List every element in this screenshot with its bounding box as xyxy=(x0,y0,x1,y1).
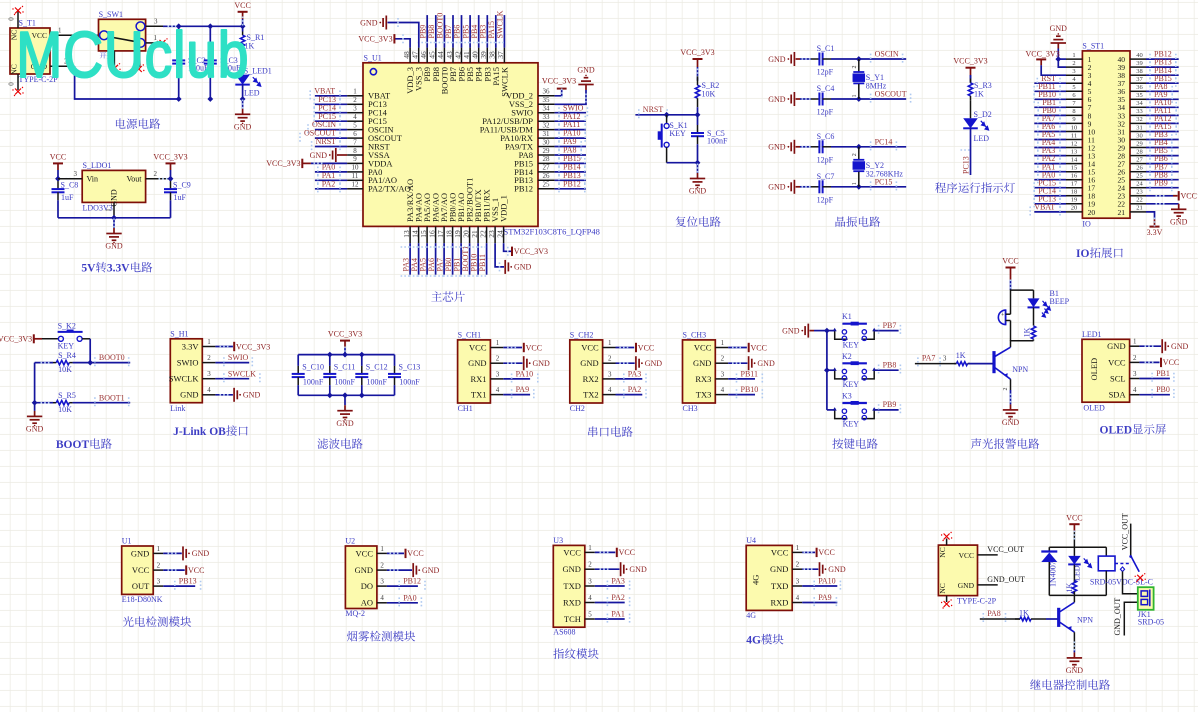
svg-text:12pF: 12pF xyxy=(817,108,834,117)
svg-text:OUT: OUT xyxy=(132,581,150,591)
ground GND at CH3 pin 2 xyxy=(728,362,747,364)
svg-text:4: 4 xyxy=(380,594,384,602)
title 4G模块 xyxy=(746,634,783,647)
ST1 right pin 31 xyxy=(1130,131,1146,133)
svg-text:KEY: KEY xyxy=(58,342,75,351)
svg-text:3: 3 xyxy=(74,170,78,178)
svg-text:KEY: KEY xyxy=(843,380,860,389)
svg-text:VCC: VCC xyxy=(771,547,789,557)
svg-text:S_C7: S_C7 xyxy=(817,172,835,181)
svg-text:2: 2 xyxy=(353,96,357,104)
svg-text:27: 27 xyxy=(543,164,551,172)
wire/net PC13 into U1 pin 2 xyxy=(315,103,347,105)
wire/net PA1 at ST1 pin 15 xyxy=(1034,171,1066,173)
svg-text:33: 33 xyxy=(1136,108,1143,115)
svg-text:BOOT1: BOOT1 xyxy=(99,393,125,402)
svg-text:S_ST1: S_ST1 xyxy=(1082,41,1104,50)
svg-text:VCC: VCC xyxy=(469,342,487,352)
wire/net PA3 at CH2 pin 3 xyxy=(616,378,643,380)
svg-text:10K: 10K xyxy=(58,365,72,374)
svg-text:MQ-2: MQ-2 xyxy=(345,609,365,618)
U1 bottom pin 21 (PB10/TX) xyxy=(477,226,479,243)
ST1 right pin 34 xyxy=(1130,106,1146,108)
svg-text:PA2: PA2 xyxy=(611,593,625,602)
ground GND at U1 pin 8 (VSSA) xyxy=(337,154,347,156)
svg-text:GND: GND xyxy=(336,419,354,428)
ground GND (power circuit) xyxy=(242,99,244,109)
svg-text:VCC_3V3: VCC_3V3 xyxy=(153,152,187,161)
svg-text:S_C9: S_C9 xyxy=(173,181,191,190)
wire/net PA7 at ST1 pin 9 xyxy=(1034,122,1066,124)
wire/net PA10 at CH1 pin 3 xyxy=(503,378,530,380)
svg-text:2: 2 xyxy=(157,562,161,570)
ground GND at LED1 pin 1 xyxy=(1139,345,1161,347)
power flag VCC at U3 pin 1 xyxy=(595,551,616,553)
key K2 xyxy=(827,369,835,371)
ST1 right pin 40 xyxy=(1130,58,1146,60)
title IO拓展口 xyxy=(1076,247,1123,260)
svg-text:VCC_3V3: VCC_3V3 xyxy=(542,77,576,86)
connector TYPE-C-2P (relay output) xyxy=(938,545,977,596)
wire button bus xyxy=(826,331,828,410)
ST1 right pin 35 xyxy=(1130,98,1146,100)
key K3 xyxy=(827,409,835,411)
wire/net OSCOUT into U1 pin 6 xyxy=(315,137,347,139)
capacitor S_C2 xyxy=(178,26,180,52)
wire/net SWIO at H1 pin 2 xyxy=(215,362,249,364)
wire/net PA12 at ST1 pin 32 xyxy=(1146,122,1179,124)
wire/net VBAT at ST1 pin 20 xyxy=(1034,211,1066,213)
wire/net PB15 at U1 right pin 28 xyxy=(555,162,586,164)
svg-text:34: 34 xyxy=(1136,100,1143,107)
ST1 right pin 26 xyxy=(1130,171,1146,173)
svg-text:4: 4 xyxy=(721,386,725,394)
svg-text:8: 8 xyxy=(1072,108,1075,115)
svg-text:CH1: CH1 xyxy=(458,404,473,413)
wire/net PC13 at ST1 pin 19 xyxy=(1034,203,1066,205)
svg-text:GND: GND xyxy=(533,359,551,368)
svg-text:21: 21 xyxy=(1136,205,1143,212)
svg-text:PB8: PB8 xyxy=(883,361,897,370)
U1 top pin 43 (PB7) xyxy=(452,48,454,63)
svg-text:GND: GND xyxy=(468,358,486,368)
svg-text:32.768KHz: 32.768KHz xyxy=(866,169,904,178)
svg-text:VCC_3V3: VCC_3V3 xyxy=(514,247,548,256)
LED alarm branch xyxy=(1033,290,1035,298)
svg-text:VCC_3V3: VCC_3V3 xyxy=(0,334,32,343)
U1 bottom pin 18 (PB0/AO) xyxy=(452,226,454,243)
ST1 left pin 5 xyxy=(1066,90,1082,92)
wire/net PA8 at U1 right pin 29 xyxy=(555,154,586,156)
power flag VCC at ST1 pin 23 xyxy=(1146,195,1173,197)
svg-text:VCC: VCC xyxy=(1181,192,1197,201)
svg-text:PB10: PB10 xyxy=(741,385,759,394)
wire/net PB6 at ST1 pin 27 xyxy=(1146,163,1179,165)
svg-text:2: 2 xyxy=(588,561,592,569)
ST1 left pin 20 xyxy=(1066,211,1082,213)
svg-text:19: 19 xyxy=(1071,197,1078,204)
module U4 (4G) body xyxy=(746,545,792,610)
svg-text:8MHz: 8MHz xyxy=(866,82,887,91)
svg-text:100nF: 100nF xyxy=(335,377,356,386)
svg-text:2: 2 xyxy=(852,153,858,156)
svg-text:VDD_1: VDD_1 xyxy=(499,195,509,222)
wire/net PA6 at ST1 pin 10 xyxy=(1034,131,1066,133)
svg-text:SWCLK: SWCLK xyxy=(169,374,200,384)
U1 bottom pin 23 (VSS_1) xyxy=(494,226,496,243)
svg-text:VCC: VCC xyxy=(526,343,542,352)
resistor 1K (relay base) xyxy=(1015,618,1020,620)
svg-text:SWCLK: SWCLK xyxy=(496,10,505,38)
svg-text:LED: LED xyxy=(974,134,990,143)
svg-text:1K: 1K xyxy=(1023,327,1032,337)
svg-text:2: 2 xyxy=(380,562,384,570)
svg-text:GND: GND xyxy=(828,565,846,574)
ST1 right pin 25 xyxy=(1130,179,1146,181)
wire/net PA9 at U4 pin 4 xyxy=(802,602,837,604)
wire/net PB11 at CH3 pin 3 xyxy=(728,378,755,380)
svg-text:3: 3 xyxy=(1072,68,1075,75)
svg-text:TX2: TX2 xyxy=(583,390,599,400)
svg-text:2: 2 xyxy=(207,354,211,362)
svg-text:2: 2 xyxy=(721,355,725,363)
svg-text:J-Link OB: J-Link OB xyxy=(173,426,226,438)
wire/net PB9 at ST1 pin 24 xyxy=(1146,187,1179,189)
wire/net PA2 at CH2 pin 4 xyxy=(616,394,643,396)
title 晶振电路 xyxy=(836,216,881,227)
svg-text:Vin: Vin xyxy=(87,174,99,183)
module U2 (MQ-2) body xyxy=(345,546,377,609)
svg-text:4G: 4G xyxy=(746,635,761,647)
svg-text:SRD-05: SRD-05 xyxy=(1138,618,1164,627)
svg-text:GND: GND xyxy=(770,564,788,574)
svg-text:21: 21 xyxy=(1118,208,1126,217)
ground GND at ST1 pin 22 xyxy=(1146,203,1179,205)
ST1 left pin 8 xyxy=(1066,114,1082,116)
svg-text:4: 4 xyxy=(1133,386,1137,394)
junction at C2 top xyxy=(176,23,182,29)
power flag VCC_3V3 (filter) xyxy=(340,340,350,342)
svg-text:CH3: CH3 xyxy=(683,404,698,413)
svg-text:2: 2 xyxy=(796,561,800,569)
title J-Link OB接口 xyxy=(173,425,248,438)
svg-text:VCC: VCC xyxy=(234,1,250,10)
svg-text:S_K2: S_K2 xyxy=(58,322,76,331)
power flag VCC at U2 pin 1 xyxy=(387,552,404,554)
svg-text:13: 13 xyxy=(1071,148,1078,155)
connector S_H1 (J-Link) xyxy=(170,339,202,403)
svg-text:PA10: PA10 xyxy=(818,577,836,586)
svg-text:VCC: VCC xyxy=(50,152,66,161)
svg-text:AO: AO xyxy=(361,598,373,608)
title 复位电路 xyxy=(676,216,721,227)
svg-text:4: 4 xyxy=(207,386,211,394)
ST1 right pin 39 xyxy=(1130,66,1146,68)
svg-text:GND: GND xyxy=(768,183,786,192)
svg-text:31: 31 xyxy=(1136,124,1143,131)
svg-text:3: 3 xyxy=(207,370,211,378)
svg-text:100nF: 100nF xyxy=(707,137,728,146)
buzzer B1 BEEP xyxy=(998,310,1005,325)
wire/net PA10 at U4 pin 3 xyxy=(802,585,837,587)
svg-text:GND: GND xyxy=(1170,217,1188,226)
svg-text:1: 1 xyxy=(588,544,592,552)
svg-text:VCC: VCC xyxy=(818,548,834,557)
svg-text:VCC_3V3: VCC_3V3 xyxy=(358,35,392,44)
svg-text:4: 4 xyxy=(353,113,357,121)
svg-text:VCC: VCC xyxy=(356,548,374,558)
wire/net PA7 at U1 bottom pin 17 xyxy=(443,243,445,275)
U1 bottom pin 22 (PB11/RX) xyxy=(486,226,488,243)
diode 1N4007 xyxy=(1048,547,1050,551)
svg-text:PB11: PB11 xyxy=(478,254,487,272)
svg-text:IO: IO xyxy=(1082,220,1091,229)
svg-text:VCC: VCC xyxy=(638,343,654,352)
wire/net PA3 at U1 bottom pin 13 xyxy=(409,243,411,275)
svg-text:IO: IO xyxy=(1076,248,1089,260)
svg-text:PB9: PB9 xyxy=(1154,178,1168,187)
svg-text:3.3V: 3.3V xyxy=(182,341,200,351)
svg-text:MCUclub: MCUclub xyxy=(16,18,249,91)
svg-text:28: 28 xyxy=(543,155,551,163)
svg-text:AS608: AS608 xyxy=(553,628,575,637)
svg-text:GND: GND xyxy=(645,359,663,368)
title 光电检测模块 xyxy=(123,616,191,627)
svg-text:S_U1: S_U1 xyxy=(364,53,382,62)
svg-text:27: 27 xyxy=(1136,156,1143,163)
svg-text:TCH: TCH xyxy=(564,614,581,624)
wire/net PA6 at U1 bottom pin 16 xyxy=(435,243,437,275)
svg-text:KEY: KEY xyxy=(843,340,860,349)
wire/net PB5 at U1 top pin 41 xyxy=(469,15,471,48)
MCU S_U1 body (STM32F103C8T6_LQFP48) xyxy=(363,63,538,227)
module U1 (E18-D80NK) body xyxy=(122,546,154,594)
wire alarm bottom node xyxy=(1011,341,1034,348)
title OLED显示屏 xyxy=(1100,424,1167,436)
ST1 right pin 30 xyxy=(1130,139,1146,141)
svg-text:PA0: PA0 xyxy=(403,593,417,602)
relay T-connector top stub (no connect) xyxy=(946,539,948,546)
svg-text:RX3: RX3 xyxy=(695,374,711,384)
wire/net PB7 at ST1 pin 26 xyxy=(1146,171,1179,173)
relay T-connector bottom stub (no connect) xyxy=(946,596,948,602)
wire/net PA12 at U1 right pin 33 xyxy=(555,120,586,122)
svg-text:TXD: TXD xyxy=(563,581,580,591)
power flag VCC_3V3 at H1 pin 1 xyxy=(215,346,233,348)
wire/net PB14 at ST1 pin 38 xyxy=(1146,74,1179,76)
svg-text:GND: GND xyxy=(355,565,373,575)
power flag VCC_3V3 (indicator) xyxy=(966,67,976,69)
svg-text:GND: GND xyxy=(131,548,149,558)
svg-text:5: 5 xyxy=(588,610,592,618)
wire/net PC14 into U1 pin 3 xyxy=(315,112,347,114)
svg-text:VCC: VCC xyxy=(959,551,974,560)
svg-text:PA1: PA1 xyxy=(611,610,625,619)
wire/net PB13 at U1 right pin 26 xyxy=(555,179,586,181)
wire/net PB12 at U1 right pin 25 xyxy=(555,188,586,190)
svg-text:15: 15 xyxy=(1071,165,1078,172)
svg-text:12pF: 12pF xyxy=(817,195,834,204)
svg-text:1: 1 xyxy=(1133,338,1137,346)
svg-text:35: 35 xyxy=(1136,92,1143,99)
capacitor S_C4 / net OSCOUT xyxy=(791,92,794,106)
wire/net PB12 at ST1 pin 40 xyxy=(1146,58,1179,60)
svg-text:S_CH2: S_CH2 xyxy=(570,330,594,339)
svg-text:GND: GND xyxy=(192,549,210,558)
resistor S_R5 10K xyxy=(35,402,53,404)
power flag VCC at U1 module pin 2 xyxy=(163,569,185,571)
U1 top pin 38 (PA15) xyxy=(495,48,497,63)
power flag VCC at CH3 pin 1 xyxy=(728,347,747,349)
svg-text:GND: GND xyxy=(234,122,252,131)
ST1 left pin 11 xyxy=(1066,139,1082,141)
svg-text:1: 1 xyxy=(721,339,725,347)
title 滤波电路 xyxy=(317,438,362,449)
svg-text:KEY: KEY xyxy=(843,420,860,429)
svg-text:NC: NC xyxy=(938,547,947,557)
U1 top pin 44 (BOOT0) xyxy=(443,48,445,63)
U1 bottom pin 19 (PB1/AO) xyxy=(460,226,462,243)
svg-text:OLED: OLED xyxy=(1089,358,1099,381)
svg-text:S_D2: S_D2 xyxy=(974,110,992,119)
relay coil SRD-05VDC-SL-C xyxy=(1105,547,1107,556)
svg-text:12: 12 xyxy=(1071,140,1078,147)
title 串口电路 xyxy=(588,426,632,437)
U1 top pin 39 (PB3) xyxy=(486,48,488,63)
svg-text:22: 22 xyxy=(1136,197,1143,204)
wire/net PB3 at ST1 pin 30 xyxy=(1146,139,1179,141)
ground GND at U4 pin 2 xyxy=(802,568,818,570)
wire/net PB7 at U1 top pin 43 xyxy=(452,15,454,48)
wire filter top rail xyxy=(298,354,394,356)
svg-text:10K: 10K xyxy=(58,405,72,414)
capacitor S_C13 100nF xyxy=(394,355,396,366)
wire filter bottom rail xyxy=(298,394,394,396)
svg-text:RXD: RXD xyxy=(563,597,581,607)
svg-text:BEEP: BEEP xyxy=(1050,297,1070,306)
power flag VCC_3V3 (reset) xyxy=(693,58,703,60)
svg-text:Vout: Vout xyxy=(127,174,143,183)
power flag VCC at CH1 pin 1 xyxy=(503,347,522,349)
svg-text:VCC_3V3: VCC_3V3 xyxy=(1025,49,1059,58)
wire/net PB13 at U1 module pin 3 xyxy=(163,585,195,587)
relay switch contact + arm xyxy=(1115,563,1131,565)
svg-text:NPN: NPN xyxy=(1012,365,1028,374)
power flag VCC at CH2 pin 1 xyxy=(616,347,635,349)
svg-text:RX2: RX2 xyxy=(583,374,599,384)
U1 top pin 40 (PB4) xyxy=(478,48,480,63)
svg-text:16: 16 xyxy=(1071,173,1078,180)
junction LED bottom rail xyxy=(240,96,246,102)
U1 bottom pin 16 (PA6/AO) xyxy=(435,226,437,243)
svg-text:4: 4 xyxy=(496,386,500,394)
wire/net PA15 at U1 top pin 38 xyxy=(495,15,497,48)
SW1 bottom stub A (no connect) xyxy=(113,51,115,67)
resistor 1K (relay LED) xyxy=(1073,565,1075,583)
svg-text:SWCLK: SWCLK xyxy=(228,369,256,378)
wire/net SWCLK at U1 top pin 37 xyxy=(503,15,505,48)
power flag VCC_3V3 (LDO output) xyxy=(166,162,176,164)
svg-text:37: 37 xyxy=(1136,76,1143,83)
wire/net PB5 at ST1 pin 28 xyxy=(1146,155,1179,157)
resistor S_R3 1K xyxy=(970,75,972,79)
svg-text:VCC_3V3: VCC_3V3 xyxy=(236,342,270,351)
svg-text:DO: DO xyxy=(361,581,373,591)
svg-text:PB1: PB1 xyxy=(1156,369,1170,378)
svg-text:3: 3 xyxy=(353,105,357,113)
svg-text:GND: GND xyxy=(689,187,707,196)
svg-text:CH2: CH2 xyxy=(570,404,585,413)
power flag VCC (LDO input) xyxy=(53,162,63,164)
connector S_CH3 body xyxy=(683,340,716,403)
svg-text:26: 26 xyxy=(543,172,551,180)
svg-text:VCC: VCC xyxy=(1163,358,1179,367)
svg-text:PB11: PB11 xyxy=(741,370,759,379)
svg-text:2: 2 xyxy=(496,355,500,363)
capacitor S_C7 / net PC15 xyxy=(791,180,794,194)
wire/net PB8 at ST1 pin 25 xyxy=(1146,179,1179,181)
ground GND (relay) xyxy=(1073,650,1075,652)
svg-text:5V: 5V xyxy=(81,263,96,275)
svg-text:38: 38 xyxy=(1136,68,1143,75)
key S_K2 (BOOT button) xyxy=(58,336,63,341)
svg-text:NPN: NPN xyxy=(1077,615,1093,624)
svg-text:GND_OUT: GND_OUT xyxy=(1113,598,1122,636)
power flag 3.3V at ST1 pin 21 xyxy=(1146,212,1155,219)
svg-text:S_CH1: S_CH1 xyxy=(458,330,482,339)
svg-text:12: 12 xyxy=(352,181,360,189)
U1 top pin 46 (PB9) xyxy=(426,48,428,63)
svg-text:34: 34 xyxy=(543,105,551,113)
wire/net BOOT0 at U1 top pin 44 xyxy=(443,15,445,48)
svg-text:32: 32 xyxy=(1136,116,1143,123)
svg-text:2: 2 xyxy=(608,355,612,363)
svg-text:GND: GND xyxy=(1050,24,1068,33)
svg-text:36: 36 xyxy=(543,88,551,96)
svg-text:U3: U3 xyxy=(553,536,563,545)
svg-text:100nF: 100nF xyxy=(303,377,324,386)
wire/net PB4 at U1 top pin 40 xyxy=(478,15,480,48)
svg-text:PB12: PB12 xyxy=(514,184,533,194)
wire/net NRST (reset node) xyxy=(635,114,697,116)
title 程序运行指示灯 xyxy=(935,182,1015,193)
svg-text:VCC: VCC xyxy=(751,343,767,352)
svg-text:1: 1 xyxy=(608,339,612,347)
svg-text:TX1: TX1 xyxy=(471,390,487,400)
wire/net PA2 into U1 pin 12 xyxy=(315,188,347,190)
svg-text:PC13: PC13 xyxy=(962,156,971,174)
svg-text:PC15: PC15 xyxy=(875,177,893,186)
wire/net PA2 at U3 pin 4 xyxy=(595,602,625,604)
svg-text:12pF: 12pF xyxy=(817,68,834,77)
U1 top pin 47 (VSS_3) xyxy=(418,48,420,63)
wire/net PC15 into U1 pin 4 xyxy=(315,120,347,122)
svg-text:1: 1 xyxy=(353,88,357,96)
ST1 left pin 3 xyxy=(1066,74,1082,76)
svg-text:PA10: PA10 xyxy=(516,370,534,379)
svg-text:4: 4 xyxy=(796,594,800,602)
svg-text:GND: GND xyxy=(243,391,261,400)
wire/net BOOT1 xyxy=(73,402,131,404)
wire/net PB0 at U1 bottom pin 18 xyxy=(452,243,454,275)
svg-text:GND: GND xyxy=(514,263,532,272)
svg-text:PB13: PB13 xyxy=(179,577,197,586)
svg-text:2: 2 xyxy=(1003,388,1009,391)
title 指纹模块 xyxy=(553,648,598,659)
svg-text:PA3: PA3 xyxy=(611,577,625,586)
wire relay top rail xyxy=(1049,546,1106,548)
ground GND (alarm) xyxy=(1010,390,1012,404)
